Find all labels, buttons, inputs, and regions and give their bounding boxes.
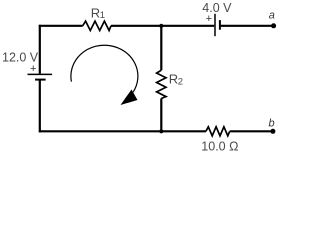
battery V1 long plate (+) bbox=[28, 73, 53, 75]
loop arrow head bbox=[121, 90, 138, 106]
svg-text:10.0 Ω: 10.0 Ω bbox=[201, 140, 238, 154]
wire: R2 branch upper bbox=[160, 25, 162, 70]
svg-text:a: a bbox=[269, 10, 275, 22]
svg-text:+: + bbox=[30, 63, 36, 75]
battery V2 long plate (+) bbox=[214, 14, 216, 36]
svg-text:12.0 V: 12.0 V bbox=[2, 51, 39, 65]
resistor R2 bbox=[157, 70, 166, 98]
resistor R1 bbox=[83, 21, 111, 30]
loop direction arrow (clockwise arc) bbox=[71, 45, 138, 92]
node: bottom junction bbox=[159, 129, 163, 133]
wire: left rail upper bbox=[39, 25, 41, 74]
wire: top rail right segment bbox=[221, 25, 272, 27]
svg-text:b: b bbox=[269, 117, 275, 129]
wire: bottom rail middle segment bbox=[161, 130, 206, 132]
wire: top rail left segment bbox=[39, 25, 83, 27]
battery V1 short plate (-) bbox=[35, 79, 46, 81]
battery V2 short plate (-) bbox=[219, 20, 221, 30]
wire: bottom rail left segment bbox=[39, 130, 162, 132]
wire: left rail lower bbox=[39, 80, 41, 132]
wire: bottom rail right segment bbox=[230, 130, 271, 132]
resistor R3 (10.0 ohm) bbox=[206, 127, 230, 136]
wire: top rail middle segment bbox=[111, 25, 214, 27]
svg-text:4.0 V: 4.0 V bbox=[202, 1, 232, 15]
terminal b dot bbox=[270, 129, 275, 134]
wire: R2 branch lower bbox=[160, 99, 162, 133]
terminal a dot bbox=[271, 23, 276, 28]
node: top junction bbox=[159, 24, 163, 28]
